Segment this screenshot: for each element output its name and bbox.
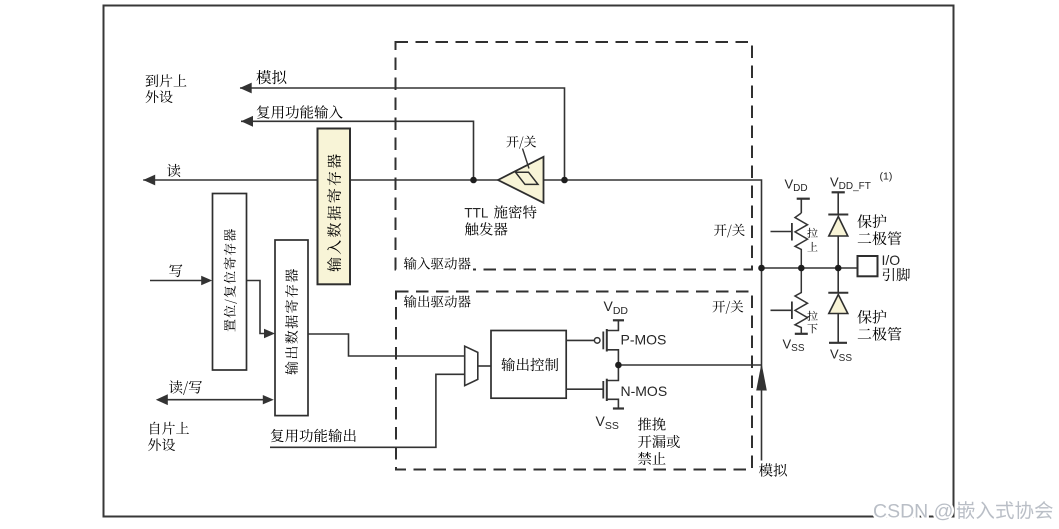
VDD_FT rail [830,171,892,215]
svg-text:VDD: VDD [604,298,629,317]
box 输出控制 (output control) [491,331,566,399]
svg-text:TTL: TTL [464,206,488,221]
wire push-pull output to pin row [618,364,761,366]
label 读 [167,164,180,177]
label 输入驱动器 [401,254,473,271]
label 开/关 for pull-down switch [713,300,744,314]
wire pin row to I/O pad [762,267,858,269]
label TTL 施密特 触发器 [464,205,536,235]
label 推挽 开漏或 禁止 [638,417,680,465]
transistor N-MOS [603,365,667,408]
VSS rail for N-MOS [596,409,625,433]
wire output control to N-MOS gate [566,388,603,390]
input driver dashed box [396,42,753,270]
wire 复用功能输出 to MUX [270,374,465,447]
wire analog path down with up arrow [756,268,767,461]
svg-text:VDD: VDD [785,177,808,195]
label 到片上 外设 [146,74,187,103]
pull-down resistor with switch [771,268,818,334]
node analog junction [561,177,568,184]
node AF-in junction [470,177,477,184]
svg-text:VSS: VSS [596,413,619,432]
label 读/写 [169,380,202,395]
svg-text:N-MOS: N-MOS [621,383,668,399]
wire output control to P-MOS gate [566,339,594,341]
label 保护 二极管 (lower) [857,310,901,341]
outer frame [104,6,954,517]
label 自片上 外设 [148,422,189,451]
pull-up resistor with switch [771,213,818,268]
label 写 [169,264,182,277]
label 模拟 (top) [256,70,286,84]
protection diode D1 [828,215,848,269]
label 复用功能输入 [257,105,343,118]
watermark CSDN [873,501,1053,523]
wire MUX to output control [478,365,491,367]
label 输出驱动器 [401,293,473,310]
wire analog-in 模拟 (pin to peripherals) [240,83,565,180]
register 输入数据寄存器 (input data register) [318,129,351,285]
transistor P-MOS [594,329,666,365]
wire schmitt input from pin row [544,180,762,268]
svg-text:VSS: VSS [783,337,805,355]
wire 读 (read, schmitt output to bus) [143,175,498,186]
label 模拟 (bottom) [759,463,787,476]
output driver dashed box [396,292,752,470]
TTL Schmitt trigger [498,157,544,203]
wire set/reset register to output data register [247,281,276,339]
svg-text:VSS: VSS [830,347,852,365]
register 置位/复位寄存器 (bit set/reset register) [213,194,247,371]
label 开/关 for pull-up switch [714,224,745,238]
label 复用功能输出 [271,429,356,442]
node pull-mid [798,265,805,272]
wire output data register to MUX [308,334,465,356]
VDD rail for P-MOS [604,298,629,329]
VDD rail for pull-up [785,177,810,214]
MUX trapezoid [465,346,478,385]
wire 写 (write into bit set/reset register) [150,276,212,285]
node push-pull output [615,362,622,369]
register 输出数据寄存器 (output data register) [275,240,308,416]
svg-text:(1): (1) [880,171,893,183]
svg-text:VDD_FT: VDD_FT [830,175,871,193]
svg-text:CSDN @: CSDN @ [873,501,953,523]
protection diode D2 [828,268,852,364]
svg-text:I/O: I/O [882,252,901,268]
node diode mid [835,265,842,272]
I/O pin pad [858,252,910,281]
label 开/关 for schmitt with leader [507,136,537,169]
wire 读/写 bidirectional [156,394,274,405]
wire 复用功能输入 (alternate function input) [241,116,474,180]
label 保护 二极管 (upper) [857,214,901,245]
node pin row left [758,265,765,272]
svg-text:P-MOS: P-MOS [621,331,667,347]
VSS rail for pull-down [783,334,808,354]
